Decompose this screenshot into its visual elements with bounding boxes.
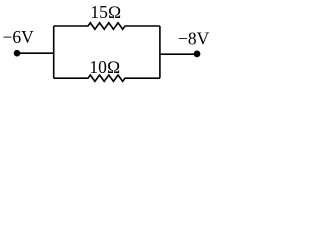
node A: left terminal dot (14, 50, 21, 57)
svg-text:−6V: −6V (3, 27, 35, 47)
wire: left vertical junction rail (53, 26, 55, 78)
svg-text:−8V: −8V (178, 29, 210, 49)
svg-text:15Ω: 15Ω (90, 2, 121, 22)
node B: right terminal dot (194, 51, 201, 58)
wire: right vertical junction rail (159, 26, 161, 78)
wire: right junction to right terminal (160, 53, 197, 55)
svg-text:10Ω: 10Ω (89, 57, 120, 77)
resistor R2 10Ω (bottom branch zigzag) (54, 75, 160, 81)
resistor R1 15Ω (top branch zigzag) (54, 23, 160, 29)
wire: left terminal to left junction (17, 52, 54, 54)
